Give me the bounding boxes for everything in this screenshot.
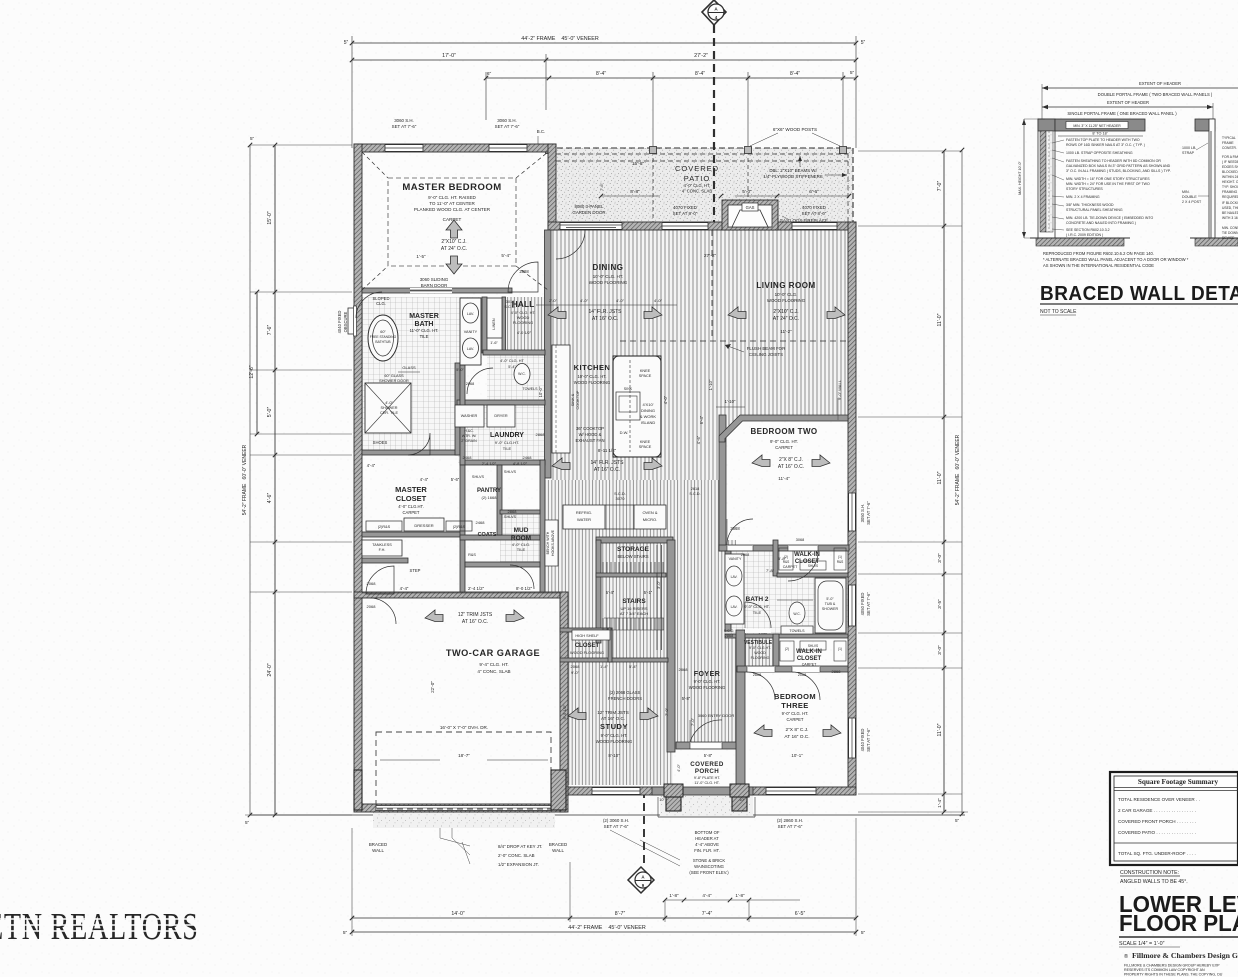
svg-text:TOTAL SQ. FTG. UNDER-ROOF . .: TOTAL SQ. FTG. UNDER-ROOF . . . . [1118, 851, 1196, 856]
svg-text:S.C.D.: S.C.D. [504, 305, 515, 309]
svg-text:5”: 5” [343, 930, 348, 936]
svg-text:5”: 5” [245, 820, 250, 825]
wall: laundry top [457, 400, 545, 405]
svg-text:7’-0”: 7’-0” [664, 707, 669, 716]
door arc: entry [690, 720, 722, 742]
svg-text:TILE: TILE [753, 610, 762, 615]
svg-text:RESERVES ITS COMMON LAW CO: RESERVES ITS COMMON LAW COPYRIGHT AN [1124, 968, 1205, 972]
window: left master bath [348, 308, 355, 334]
washer/dryer [455, 405, 484, 427]
svg-text:9’-5 1/2”: 9’-5 1/2” [562, 704, 567, 719]
wall: walkin1 bottom wall [777, 573, 848, 577]
garage door dashed [376, 732, 551, 809]
svg-text:(2) 3060 S.H.: (2) 3060 S.H. [603, 818, 629, 823]
svg-text:(2) 2860 S.H.: (2) 2860 S.H. [777, 818, 803, 823]
windows: top wall master bedroom [385, 145, 423, 152]
svg-text:3’-0”: 3’-0” [656, 580, 661, 589]
svg-text:HOOKS ABOVE: HOOKS ABOVE [551, 529, 555, 556]
wall: porch bottom with posts [652, 787, 753, 795]
svg-text:LINEN: LINEN [492, 318, 496, 329]
svg-text:10”: 10” [739, 798, 745, 802]
svg-text:2868: 2868 [753, 673, 761, 677]
svg-text:3060 ENTRY DOOR: 3060 ENTRY DOOR [698, 713, 735, 718]
svg-text:CLG.: CLG. [376, 301, 386, 306]
svg-text:17’-0”: 17’-0” [442, 53, 456, 59]
svg-text:TUB &: TUB & [825, 602, 836, 606]
svg-text:LAV.: LAV. [467, 347, 474, 351]
floor texture: garage apron stipple [373, 811, 555, 828]
wall: left exterior [354, 144, 362, 810]
svg-text:MIN.: MIN. [1182, 190, 1190, 194]
svg-text:PATIO: PATIO [684, 174, 710, 183]
svg-text:KNEE: KNEE [640, 440, 651, 444]
svg-text:6’-4”: 6’-4” [699, 415, 704, 424]
svg-text:9’-8” PLATE HT.: 9’-8” PLATE HT. [694, 776, 720, 780]
wall: garage top wall [354, 592, 560, 598]
svg-text:SEE SECTION R602.10.3.2: SEE SECTION R602.10.3.2 [1066, 228, 1110, 232]
svg-text:5’-8”: 5’-8” [682, 696, 691, 701]
section marker diamond A/4 top [702, 0, 726, 228]
svg-text:5”: 5” [861, 930, 866, 936]
svg-text:MASTER: MASTER [395, 485, 427, 494]
svg-text:STUDY: STUDY [600, 722, 628, 731]
svg-text:CEILING JOISTS: CEILING JOISTS [749, 352, 783, 357]
wall: bath2 west wall [725, 551, 731, 631]
wall: mudroom bottom [465, 562, 540, 567]
svg-text:6’-5”: 6’-5” [795, 911, 806, 917]
svg-text:MUD: MUD [514, 527, 529, 534]
floor texture: covered patio stipple [548, 148, 853, 224]
svg-text:WITHIN 24” OF: WITHIN 24” OF [1222, 175, 1238, 179]
svg-text:(1): (1) [838, 647, 842, 651]
svg-text:WASHER: WASHER [461, 414, 478, 418]
svg-text:CARPET: CARPET [783, 565, 798, 569]
dimension: top patio posts 8-4 segments [484, 70, 858, 146]
svg-text:3050 S.H.: 3050 S.H. [860, 504, 865, 523]
rear wall openings: garden door + windows [560, 223, 622, 230]
svg-text:VANITY: VANITY [729, 557, 742, 561]
svg-text:6”X6” WOOD POSTS: 6”X6” WOOD POSTS [773, 127, 817, 132]
wall: closet east wall [608, 628, 612, 662]
svg-text:TILE: TILE [503, 446, 512, 451]
svg-text:SHOWER DOOR: SHOWER DOOR [379, 379, 409, 383]
svg-text:4070 FIXED: 4070 FIXED [802, 205, 826, 210]
svg-text:3/8” MIN. THICKNESS WOOD: 3/8” MIN. THICKNESS WOOD [1066, 203, 1114, 207]
svg-text:FLOORING: FLOORING [513, 320, 533, 325]
wall: pantry-coats west wall [460, 465, 465, 592]
dimension: left column [242, 136, 352, 825]
door arc: master bedroom to hall [508, 262, 538, 292]
linen [487, 298, 502, 338]
svg-text:WOOD FLOORING: WOOD FLOORING [574, 380, 611, 385]
svg-text:ISLAND: ISLAND [641, 420, 656, 425]
windows: right wall (bedroom two, bath2 tub, bedroom three) [849, 493, 856, 531]
svg-text:1/2” EXPANSION JT.: 1/2” EXPANSION JT. [498, 862, 539, 867]
windows: bottom wall bedroom three (2) 2860 [766, 788, 816, 795]
svg-text:12” TRIM JSTS: 12” TRIM JSTS [458, 612, 493, 618]
svg-text:COATS: COATS [478, 532, 497, 538]
stair treads upper [602, 562, 604, 573]
svg-text:CLOSET: CLOSET [797, 656, 822, 662]
veneer extension line bottom [250, 814, 378, 816]
svg-text:9’-4” CLG. HT.: 9’-4” CLG. HT. [479, 662, 508, 667]
svg-text:BRACED: BRACED [549, 842, 567, 847]
svg-text:R&S: R&S [468, 553, 476, 557]
svg-text:COVERED: COVERED [675, 164, 719, 173]
stair treads lower [602, 618, 604, 630]
windows: bottom wall study (2) 3060 [592, 788, 640, 795]
svg-text:S.C.D.: S.C.D. [689, 492, 700, 496]
svg-text:11’-0” CLG. HT.: 11’-0” CLG. HT. [694, 781, 719, 785]
svg-text:MIN. WIDTH = 24” FOR USE IN TH: MIN. WIDTH = 24” FOR USE IN THE FIRST OF… [1066, 182, 1150, 186]
svg-text:FRAME: FRAME [1222, 141, 1234, 145]
svg-text:2868: 2868 [519, 269, 529, 274]
svg-text:9’-0” WALL: 9’-0” WALL [837, 379, 842, 400]
floor texture: corridor wood by mudroom [540, 540, 596, 592]
section marker diamond A/9 bottom [605, 545, 654, 893]
svg-text:WALL: WALL [552, 848, 564, 853]
wall: bedroom two bottom [719, 545, 849, 551]
svg-text:PLANKED WOOD CLG. AT CENTER: PLANKED WOOD CLG. AT CENTER [414, 207, 491, 212]
svg-text:BE NAILED TO T: BE NAILED TO T [1222, 211, 1238, 215]
svg-text:44’-2” FRAME 45’-0” VENEER: 44’-2” FRAME 45’-0” VENEER [568, 925, 646, 931]
svg-text:4’-0”: 4’-0” [616, 298, 625, 303]
wall: foyer-vestibule east / bedroom3-porch west wall [736, 630, 745, 798]
svg-text:TYP. SHOWN.: TYP. SHOWN. [1222, 185, 1238, 189]
svg-text:AT 16” O.C.: AT 16” O.C. [778, 464, 804, 470]
svg-text:W.C.: W.C. [793, 612, 800, 616]
svg-text:TIE DOWN: TIE DOWN [1222, 231, 1238, 235]
svg-text:2”X 8” C.J.: 2”X 8” C.J. [786, 727, 809, 733]
svg-text:4” CONC. SLAB: 4” CONC. SLAB [682, 189, 712, 194]
svg-text:1’-8”: 1’-8” [735, 893, 745, 898]
braced wall detail: header bar [1055, 119, 1145, 131]
svg-text:FLUSH BEAM FOR: FLUSH BEAM FOR [747, 346, 786, 351]
wall: mudroom east / corridor west [540, 460, 545, 592]
svg-text:REFRIG.: REFRIG. [576, 510, 592, 515]
svg-text:WTR. W/: WTR. W/ [462, 434, 477, 438]
svg-text:SHOWER: SHOWER [822, 607, 839, 611]
svg-text:FRENCH DOORS: FRENCH DOORS [608, 696, 642, 701]
svg-text:27’-2”: 27’-2” [704, 253, 717, 259]
svg-text:CLOSET: CLOSET [396, 494, 427, 503]
svg-text:PROPERTY RIGHTS IN THESE PLANS: PROPERTY RIGHTS IN THESE PLANS. THE COPY… [1124, 973, 1223, 977]
svg-text:3068: 3068 [796, 538, 804, 542]
svg-text:SET AT 7’-6”: SET AT 7’-6” [866, 728, 871, 752]
svg-text:54’-2” FRAME 60’-0” VENEER: 54’-2” FRAME 60’-0” VENEER [955, 434, 961, 505]
svg-text:PANTRY: PANTRY [477, 488, 501, 494]
svg-text:8’ TO 18’: 8’ TO 18’ [1092, 132, 1107, 136]
svg-text:SHLVS: SHLVS [504, 515, 517, 519]
svg-text:5’-4”: 5’-4” [501, 253, 511, 258]
svg-text:WALL: WALL [372, 848, 384, 853]
floor texture: covered porch stipple [660, 795, 753, 817]
svg-text:10’-0” CLG.: 10’-0” CLG. [775, 292, 798, 297]
section cut dashed line [713, 25, 715, 228]
svg-text:36” COOKTOP: 36” COOKTOP [576, 426, 604, 431]
svg-text:9’-0” CLG.HT.: 9’-0” CLG.HT. [749, 646, 771, 650]
svg-text:7’-4”: 7’-4” [702, 911, 713, 917]
svg-text:1000 LB.: 1000 LB. [1182, 146, 1196, 150]
svg-text:GAS: GAS [746, 205, 755, 210]
svg-text:WALK-IN: WALK-IN [794, 552, 820, 558]
dimension: right column [858, 148, 968, 823]
svg-text:2 CAR GARAGE . . . . . . . . .: 2 CAR GARAGE . . . . . . . . . . . . . .… [1118, 808, 1196, 813]
svg-text:2’-0” CONC. SLAB: 2’-0” CONC. SLAB [498, 853, 535, 858]
svg-text:STRUCTURAL PANEL SHEATHING: STRUCTURAL PANEL SHEATHING [1066, 208, 1123, 212]
svg-text:11’-2”: 11’-2” [780, 329, 792, 334]
svg-text:(2)R&S: (2)R&S [453, 525, 466, 529]
svg-text:2868: 2868 [508, 509, 518, 514]
svg-text:1’-4”: 1’-4” [600, 664, 609, 669]
svg-text:AS SHOWN IN THE INTERNATIONAL: AS SHOWN IN THE INTERNATIONAL RESIDENTIA… [1043, 263, 1154, 268]
svg-text:8’-0 1/2”: 8’-0 1/2” [516, 586, 533, 591]
svg-text:1’-4”: 1’-4” [937, 798, 943, 808]
svg-text:VANITY: VANITY [464, 330, 478, 334]
svg-text:7’-8”: 7’-8” [766, 568, 775, 573]
svg-text:7’-0”: 7’-0” [937, 181, 943, 192]
wall: right exterior [848, 222, 856, 794]
svg-text:BELOW STAIRS: BELOW STAIRS [617, 554, 648, 559]
wall: hall west wall [502, 297, 506, 353]
wall: rear wall at patio (garden door/windows) [548, 222, 856, 230]
svg-text:(2) 2068 GLASS: (2) 2068 GLASS [610, 690, 641, 695]
svg-text:MIN. WIDTH = 16” FOR ONE STORY: MIN. WIDTH = 16” FOR ONE STORY STRUCTURE… [1066, 177, 1150, 181]
svg-text:Fillmore & Chambers Design G: Fillmore & Chambers Design G [1132, 951, 1238, 960]
svg-text:MAX. HEIGHT 10’-0”: MAX. HEIGHT 10’-0” [1018, 160, 1022, 194]
svg-text:8’-4”: 8’-4” [695, 71, 705, 77]
svg-text:MIN. 3” X 11.25” NET HEADER: MIN. 3” X 11.25” NET HEADER [1073, 124, 1121, 128]
svg-text:EXHAUST FAN: EXHAUST FAN [575, 438, 604, 443]
svg-text:2868: 2868 [725, 634, 733, 638]
svg-text:COVERED FRONT PORCH . . . . .: COVERED FRONT PORCH . . . . . . . . [1118, 819, 1196, 824]
wall: laundry bottom / pantry top [460, 460, 545, 465]
svg-text:TOWELS: TOWELS [789, 629, 805, 633]
svg-text:9’-0” CLG. HT.: 9’-0” CLG. HT. [770, 439, 798, 444]
floor texture: bath2 tile [725, 551, 777, 634]
svg-text:HIGH SHELF: HIGH SHELF [575, 633, 599, 638]
svg-text:5’-4”: 5’-4” [508, 365, 516, 369]
svg-text:2468: 2468 [523, 455, 533, 460]
svg-text:MIN. 4200 LB. TIE-DOWN DEVICE: MIN. 4200 LB. TIE-DOWN DEVICE ( EMBEDDED… [1066, 216, 1153, 220]
joist arrows kitchen lower [552, 458, 570, 470]
svg-text:9’-0” CLG. HT.: 9’-0” CLG. HT. [601, 733, 628, 738]
svg-text:SET AT 8’-0”: SET AT 8’-0” [673, 211, 698, 216]
svg-text:SHLVS: SHLVS [504, 470, 517, 474]
svg-text:SET AT 7’-6”: SET AT 7’-6” [495, 124, 520, 129]
svg-text:60” GLASS: 60” GLASS [384, 374, 404, 378]
svg-text:STORAGE: STORAGE [617, 546, 650, 553]
kitchen island [613, 356, 661, 457]
svg-text:(2): (2) [785, 647, 789, 651]
wall: storage/stair break [596, 573, 666, 577]
svg-text:4’-0” CLG. HT: 4’-0” CLG. HT [500, 359, 524, 363]
svg-text:TILE: TILE [517, 547, 526, 552]
svg-text:HEADER AT: HEADER AT [695, 836, 719, 841]
svg-text:USED, THEY SH: USED, THEY SH [1222, 206, 1238, 210]
svg-text:9’-0” CLG. HT.: 9’-0” CLG. HT. [694, 679, 721, 684]
svg-text:LAUNDRY: LAUNDRY [490, 432, 524, 439]
wall: walkin1 west wall [773, 540, 778, 576]
svg-text:5’-6”: 5’-6” [451, 477, 460, 482]
garage joist arrows [425, 610, 443, 622]
svg-text:FLOORING: FLOORING [751, 656, 770, 660]
fireplace [722, 200, 778, 230]
svg-text:2618: 2618 [691, 487, 699, 491]
kitchen left counter [552, 345, 570, 453]
svg-text:COVERED: COVERED [690, 761, 724, 768]
svg-text:2068: 2068 [798, 673, 806, 677]
wall: master closet bottom [362, 532, 462, 537]
svg-text:22’-0”: 22’-0” [430, 681, 435, 693]
svg-text:5’-0”: 5’-0” [742, 189, 752, 195]
floor texture: mud room tile [500, 510, 540, 565]
svg-text:2868: 2868 [536, 432, 546, 437]
stair stringers [656, 545, 658, 650]
svg-text:3060 SLIDING: 3060 SLIDING [420, 277, 449, 282]
floor texture: master bath tile [362, 297, 482, 365]
svg-text:TYPICAL: TYPICAL [1222, 136, 1236, 140]
svg-text:SINK: SINK [624, 387, 633, 391]
svg-text:4’-4”: 4’-4” [420, 477, 429, 482]
svg-text:AT 24” O.C.: AT 24” O.C. [773, 316, 799, 322]
svg-text:FASTEN TOP PLATE TO HEADER WIT: FASTEN TOP PLATE TO HEADER WITH TWO [1066, 138, 1140, 142]
svg-text:TILE: TILE [420, 334, 429, 339]
svg-text:(SEE FRONT ELEV.): (SEE FRONT ELEV.) [689, 870, 729, 875]
wall: closet bottom / study top [560, 658, 668, 662]
svg-text:THREE: THREE [781, 701, 808, 710]
svg-text:BOTTOM OF: BOTTOM OF [695, 830, 720, 835]
svg-text:SET AT 8’-0”: SET AT 8’-0” [802, 211, 827, 216]
svg-text:SINK &: SINK & [571, 393, 575, 406]
wall: garage right / study left [560, 592, 568, 812]
svg-text:5’-4”: 5’-4” [629, 664, 638, 669]
wall: hall bottom / wc top [483, 350, 545, 355]
svg-text:2’-4 1/2”: 2’-4 1/2” [468, 586, 485, 591]
wall: hall/dining separation [545, 230, 552, 478]
svg-text:5’-1”: 5’-1” [644, 590, 653, 595]
svg-text:LAV.: LAV. [731, 575, 738, 579]
svg-text:W.C.: W.C. [518, 372, 526, 376]
dimension: bottom rows [343, 818, 866, 936]
svg-text:4050 FIXED: 4050 FIXED [860, 593, 865, 616]
svg-text:5”: 5” [861, 40, 866, 46]
svg-text:4’-0”: 4’-0” [663, 395, 668, 404]
door opening: entry in porch wall [690, 743, 722, 749]
porch steps outline [658, 816, 755, 818]
svg-text:STAIRS: STAIRS [622, 598, 646, 605]
svg-text:TWO-CAR GARAGE: TWO-CAR GARAGE [446, 648, 540, 658]
svg-text:LAV.: LAV. [731, 605, 738, 609]
svg-text:STRAP: STRAP [1182, 151, 1195, 155]
svg-text:CONCRETE AND NAILED INTO FRAMI: CONCRETE AND NAILED INTO FRAMING ) [1066, 221, 1136, 225]
svg-text:2868: 2868 [679, 667, 689, 672]
svg-text:8’-11 1/2”: 8’-11 1/2” [598, 448, 617, 453]
svg-text:8’-4”: 8’-4” [790, 71, 800, 77]
garage braced wall panels [354, 770, 362, 810]
svg-text:CLOSET: CLOSET [575, 643, 600, 649]
wall: bath east wall lower [455, 363, 460, 455]
svg-text:BATH: BATH [415, 321, 434, 328]
wall: foyer bottom / porch top wall [676, 742, 737, 749]
svg-text:4’-0”: 4’-0” [385, 401, 393, 405]
floor texture: vestibule wood [742, 638, 773, 666]
svg-text:Square Footage Summary: Square Footage Summary [1138, 778, 1219, 786]
svg-text:MIN. CONNECT: MIN. CONNECT [1222, 226, 1238, 230]
svg-text:* ALTERNATE BRACED WALL PANEL: * ALTERNATE BRACED WALL PANEL ADJACENT T… [1043, 257, 1189, 262]
svg-text:(1): (1) [838, 555, 842, 559]
svg-text:BEDROOM: BEDROOM [774, 692, 816, 701]
svg-text:SHOES: SHOES [373, 440, 388, 445]
svg-text:SHOWER: SHOWER [380, 406, 397, 410]
svg-text:AT 16” O.C.: AT 16” O.C. [592, 316, 618, 322]
svg-text:2068: 2068 [571, 664, 581, 669]
svg-text:( I.R.C. 2009 EDITION ): ( I.R.C. 2009 EDITION ) [1066, 233, 1103, 237]
svg-text:MASTER BEDROOM: MASTER BEDROOM [402, 182, 501, 193]
svg-text:9’-0” CLG.HT.: 9’-0” CLG.HT. [495, 440, 519, 445]
braced wall detail: left max height dim [1023, 119, 1025, 238]
svg-text:CARPET: CARPET [787, 717, 804, 722]
svg-text:B.C.: B.C. [537, 129, 546, 134]
svg-text:WOOD: WOOD [754, 651, 766, 655]
svg-text:HEIGHT. ONE R: HEIGHT. ONE R [1222, 180, 1238, 184]
svg-text:AT 7 3/4” EACH: AT 7 3/4” EACH [620, 611, 648, 616]
bath2 tub [815, 578, 846, 633]
svg-text:SCALE 1/4” = 1’-0”: SCALE 1/4” = 1’-0” [1119, 941, 1165, 947]
svg-text:CARPET: CARPET [802, 663, 817, 667]
door arc: garage to mudroom [370, 598, 396, 624]
svg-text:SET AT 7’-6”: SET AT 7’-6” [866, 592, 871, 616]
svg-text:3” O.C. IN ALL FRAMING ( STUDS: 3” O.C. IN ALL FRAMING ( STUDS, BLOCKING… [1066, 169, 1171, 173]
svg-text:2’-0”: 2’-0” [549, 298, 558, 303]
shower with X [365, 383, 411, 433]
svg-text:H.&C.: H.&C. [464, 429, 474, 433]
svg-text:60”: 60” [380, 330, 386, 334]
svg-text:SPACE: SPACE [639, 445, 652, 449]
svg-text:4” CONC. SLAB: 4” CONC. SLAB [477, 669, 510, 674]
svg-text:WATER: WATER [577, 517, 591, 522]
dimension: top 17-0 / 27-2 [350, 53, 858, 110]
floor texture: kitchen-lower / corridor wood [545, 480, 721, 540]
svg-text:10’-0” CLG. HT.: 10’-0” CLG. HT. [593, 274, 624, 279]
svg-text:WOOD FLOORING: WOOD FLOORING [767, 298, 806, 303]
wall: stairs east / foyer west wall [667, 540, 675, 752]
wall: laundry west wall [460, 365, 465, 465]
svg-text:CONSTR.: CONSTR. [1222, 146, 1237, 150]
wall: bedroom three top wall [737, 666, 848, 672]
svg-text:DINING: DINING [641, 408, 655, 413]
wall: mudroom inner top [500, 510, 540, 514]
svg-text:4’X10’: 4’X10’ [642, 402, 653, 407]
svg-text:27’-2”: 27’-2” [694, 53, 708, 59]
svg-text:SET AT 7’-6”: SET AT 7’-6” [866, 501, 871, 525]
svg-text:SHLVS: SHLVS [472, 475, 485, 479]
svg-text:44’-2” FRAME 45’-0” VENEER: 44’-2” FRAME 45’-0” VENEER [521, 36, 599, 42]
svg-text:10’-0”: 10’-0” [538, 386, 543, 397]
svg-text:FILLMORE & CHAMBERS DESIGN GRO: FILLMORE & CHAMBERS DESIGN GROUP HEREBY … [1124, 964, 1220, 968]
wall: vestibule east wall [773, 634, 779, 670]
svg-text:WOOD FLOORING: WOOD FLOORING [689, 685, 726, 690]
svg-text:AT 16” O.C.: AT 16” O.C. [784, 734, 809, 740]
svg-text:14” FLR. JSTS: 14” FLR. JSTS [590, 460, 624, 466]
svg-text:7’-6”: 7’-6” [267, 325, 273, 336]
svg-text:3’-0”: 3’-0” [937, 553, 943, 563]
svg-text:TANKLESS: TANKLESS [372, 543, 392, 547]
svg-text:SET AT 7’-6”: SET AT 7’-6” [604, 824, 629, 829]
svg-text:2468: 2468 [476, 520, 486, 525]
braced wall detail: ground hatch [1036, 238, 1124, 246]
svg-text:BRACED: BRACED [369, 842, 387, 847]
